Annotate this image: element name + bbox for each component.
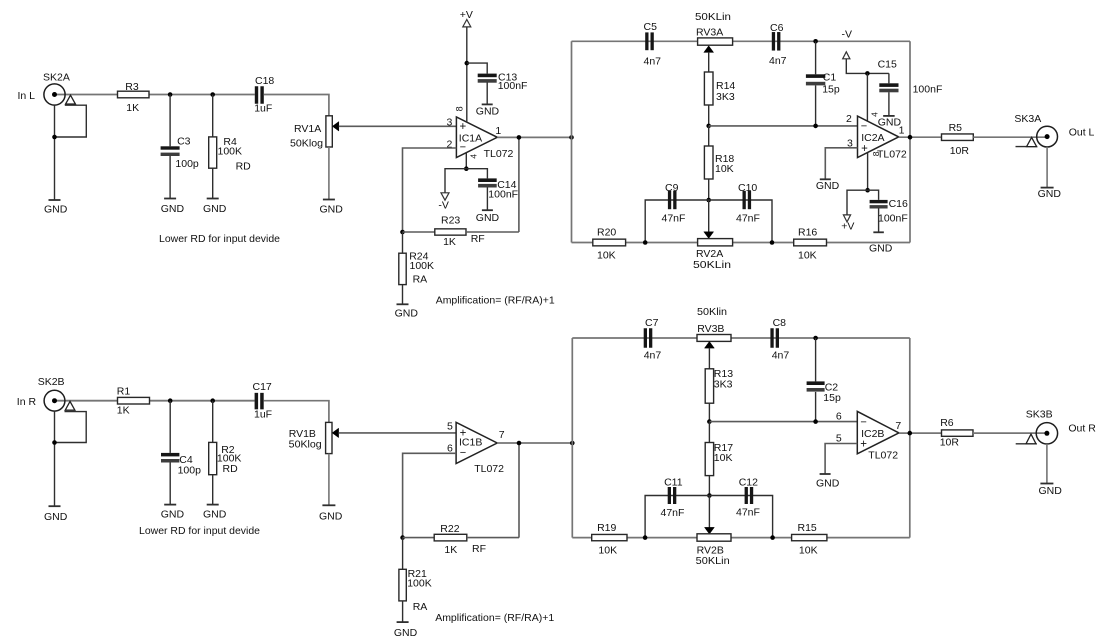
node tone box A input junction xyxy=(569,135,574,140)
wire tone box B top rail xyxy=(572,337,910,339)
wire R6 to SK3B xyxy=(973,432,1046,434)
svg-text:7: 7 xyxy=(895,420,901,432)
svg-text:15p: 15p xyxy=(823,392,841,404)
svg-text:15p: 15p xyxy=(822,84,840,96)
svg-text:3K3: 3K3 xyxy=(714,379,733,391)
svg-text:4n7: 4n7 xyxy=(644,350,662,362)
resistor R24 xyxy=(399,232,434,304)
wire input L main xyxy=(57,94,255,96)
op-amp IC1B xyxy=(447,421,505,475)
wire IC2A output xyxy=(899,136,942,138)
svg-text:GND: GND xyxy=(44,204,68,216)
svg-text:RF: RF xyxy=(471,233,485,245)
svg-text:RV3A: RV3A xyxy=(696,26,723,38)
svg-text:50KLin: 50KLin xyxy=(693,259,731,271)
svg-text:4: 4 xyxy=(468,154,478,159)
svg-text:100K: 100K xyxy=(218,145,243,157)
svg-text:1K: 1K xyxy=(443,236,456,248)
capacitor C9 xyxy=(662,182,686,225)
node tone box A output junction xyxy=(908,135,913,140)
svg-text:R1: R1 xyxy=(117,386,131,398)
capacitor C11 xyxy=(661,477,685,520)
capacitor C7 xyxy=(644,317,662,362)
svg-text:TL072: TL072 xyxy=(868,450,898,462)
op-amp IC2B xyxy=(836,411,902,462)
svg-text:C9: C9 xyxy=(665,182,679,194)
svg-text:TL072: TL072 xyxy=(484,148,514,160)
wire IC1B output xyxy=(497,442,572,444)
svg-text:R23: R23 xyxy=(441,214,460,226)
capacitor C1 xyxy=(806,41,840,126)
ground GND at SK2B xyxy=(44,506,68,523)
svg-text:1: 1 xyxy=(899,124,905,136)
svg-text:C7: C7 xyxy=(645,317,659,329)
resistor R5 xyxy=(942,122,974,157)
ground GND at IC2A pin 3 xyxy=(816,179,840,192)
ground GND at SK3B xyxy=(1039,484,1063,498)
resistor R3 xyxy=(118,81,150,114)
node R18-C9-C10 junction xyxy=(706,198,711,203)
connector SK2B xyxy=(17,376,86,506)
svg-text:R15: R15 xyxy=(798,522,817,534)
node feedback junction B xyxy=(400,535,405,540)
svg-text:GND: GND xyxy=(476,106,500,118)
svg-text:100nF: 100nF xyxy=(488,189,518,201)
svg-text:−: − xyxy=(861,121,867,133)
svg-text:In L: In L xyxy=(18,90,36,102)
svg-text:C16: C16 xyxy=(889,198,908,210)
capacitor C3 xyxy=(161,95,199,199)
svg-text:Lower RD for input devide: Lower RD for input devide xyxy=(159,233,280,245)
svg-text:R19: R19 xyxy=(597,522,616,534)
svg-text:100p: 100p xyxy=(175,158,199,170)
svg-text:IC2B: IC2B xyxy=(861,428,884,440)
capacitor C8 xyxy=(770,317,789,362)
ground GND at IC2B pin 5 xyxy=(816,474,840,490)
svg-text:GND: GND xyxy=(1039,485,1063,497)
svg-text:R6: R6 xyxy=(940,417,954,429)
resistor R1 xyxy=(117,386,150,417)
svg-text:1uF: 1uF xyxy=(254,103,272,115)
label text Lower RD for input devide (bottom) xyxy=(139,525,260,537)
svg-text:Out L: Out L xyxy=(1069,127,1095,139)
capacitor C17 xyxy=(253,381,273,421)
node C10 bottom junction xyxy=(770,240,775,245)
node C12 bottom junction xyxy=(770,535,775,540)
svg-text:47nF: 47nF xyxy=(662,212,686,224)
node feedback junction A xyxy=(400,230,405,235)
svg-text:C11: C11 xyxy=(664,477,683,489)
svg-text:10K: 10K xyxy=(597,250,616,262)
svg-text:8: 8 xyxy=(871,151,881,156)
svg-text:100nF: 100nF xyxy=(498,80,528,92)
svg-text:GND: GND xyxy=(319,511,343,523)
svg-text:RA: RA xyxy=(413,601,428,613)
svg-text:RD: RD xyxy=(236,161,252,173)
node C11 bottom junction xyxy=(643,535,648,540)
svg-text:100K: 100K xyxy=(407,577,432,589)
svg-text:+V: +V xyxy=(460,9,473,21)
svg-text:C17: C17 xyxy=(253,381,272,393)
svg-text:RV1A: RV1A xyxy=(294,123,321,135)
wire tone box A bottom rail xyxy=(572,242,911,244)
svg-text:GND: GND xyxy=(816,180,840,192)
ground GND at R2 xyxy=(203,505,227,521)
potentiometer RV3B xyxy=(697,306,731,369)
wire R23 to IC1A output xyxy=(518,137,520,232)
node C8 - C2 junction xyxy=(813,336,818,341)
svg-text:7: 7 xyxy=(499,429,505,441)
wire tone box A left edge xyxy=(571,41,573,242)
resistor R13 xyxy=(705,368,733,422)
ground GND at SK2A xyxy=(44,200,68,216)
svg-text:In R: In R xyxy=(17,396,37,408)
svg-text:47nF: 47nF xyxy=(736,507,760,519)
svg-text:C15: C15 xyxy=(878,59,897,71)
svg-text:GND: GND xyxy=(869,243,893,255)
connector SK3B xyxy=(1016,409,1097,484)
svg-text:4n7: 4n7 xyxy=(772,350,790,362)
op-amp IC2A xyxy=(846,112,907,161)
svg-text:SK2B: SK2B xyxy=(38,376,65,388)
ground GND at R4 xyxy=(203,199,227,216)
capacitor C15 xyxy=(878,59,943,116)
svg-text:GND: GND xyxy=(476,212,500,224)
svg-text:C12: C12 xyxy=(739,477,758,489)
svg-text:100p: 100p xyxy=(178,465,202,477)
svg-text:1K: 1K xyxy=(117,404,130,416)
label text Amplification formula (bottom) xyxy=(435,612,554,624)
svg-text:GND: GND xyxy=(320,204,344,216)
svg-text:TL072: TL072 xyxy=(474,463,504,475)
node R1-C4 junction xyxy=(168,398,173,403)
wire R22 to IC1B output xyxy=(518,443,520,538)
power +V at IC1A pin 8 xyxy=(460,9,473,122)
capacitor C4 xyxy=(161,401,201,505)
svg-text:10R: 10R xyxy=(940,437,960,449)
svg-text:TL072: TL072 xyxy=(877,149,907,161)
svg-text:5: 5 xyxy=(447,421,453,433)
node R3-C3 junction xyxy=(168,92,173,97)
svg-text:−: − xyxy=(460,447,466,459)
node C1 bottom junction xyxy=(813,124,818,129)
wire IC2B output xyxy=(899,432,942,434)
potentiometer RV1B xyxy=(289,422,339,505)
svg-text:5: 5 xyxy=(836,432,842,444)
connector SK3A xyxy=(1014,113,1094,187)
wire R5 to SK3A xyxy=(973,136,1046,138)
resistor R6 xyxy=(940,417,973,449)
node IC1B output junction xyxy=(517,441,522,446)
svg-text:C8: C8 xyxy=(773,317,787,329)
ground GND at RV1B xyxy=(319,505,343,522)
svg-text:Amplification= (RF/RA)+1: Amplification= (RF/RA)+1 xyxy=(436,294,555,306)
node pin8 junction A xyxy=(865,188,870,193)
node C9 bottom junction xyxy=(643,240,648,245)
svg-text:1uF: 1uF xyxy=(254,409,272,421)
capacitor C10 xyxy=(736,182,760,225)
power +V at IC2A pin 8 xyxy=(841,190,867,232)
node R13-R17 junction xyxy=(707,419,712,424)
svg-text:3: 3 xyxy=(446,117,452,129)
wire C11 C12 branch B xyxy=(645,496,773,538)
svg-text:RV3B: RV3B xyxy=(697,323,724,335)
svg-text:RD: RD xyxy=(223,463,239,475)
resistor R19 xyxy=(592,522,627,557)
capacitor C13 xyxy=(467,63,528,104)
svg-text:1: 1 xyxy=(495,125,501,137)
resistor R2 xyxy=(209,401,242,505)
wire to IC2B pin 6 xyxy=(709,421,857,423)
node +V decoupling junction xyxy=(465,61,470,66)
svg-text:R16: R16 xyxy=(798,227,817,239)
node C2 bottom junction xyxy=(813,419,818,424)
svg-text:C1: C1 xyxy=(823,72,837,84)
svg-text:IC2A: IC2A xyxy=(861,132,884,144)
svg-text:C6: C6 xyxy=(770,22,784,34)
ground GND at C14 xyxy=(476,210,500,224)
svg-text:2: 2 xyxy=(846,113,852,125)
wire IC2B pin 5 to ground xyxy=(825,444,857,474)
capacitor C5 xyxy=(644,21,662,68)
resistor R21 xyxy=(399,538,432,622)
capacitor C14 xyxy=(466,169,518,210)
svg-text:C10: C10 xyxy=(738,182,757,194)
potentiometer RV2B xyxy=(696,496,731,568)
svg-text:Lower RD for input devide: Lower RD for input devide xyxy=(139,525,260,537)
svg-text:GND: GND xyxy=(44,511,68,523)
node tone box B output junction xyxy=(908,431,913,436)
svg-text:50Klin: 50Klin xyxy=(697,306,727,318)
wire to IC2A pin 2 xyxy=(709,125,858,127)
svg-text:RA: RA xyxy=(413,274,428,286)
svg-text:100K: 100K xyxy=(410,260,435,272)
node -V pin4 junction xyxy=(865,71,870,76)
svg-text:+: + xyxy=(460,121,467,133)
ground GND at C16 xyxy=(873,231,884,233)
svg-text:50KLin: 50KLin xyxy=(695,11,731,23)
node IC1A output junction xyxy=(517,135,522,140)
capacitor C18 xyxy=(254,75,274,115)
wire C17 to RV1B xyxy=(264,401,329,423)
svg-text:47nF: 47nF xyxy=(661,507,685,519)
svg-text:R22: R22 xyxy=(440,523,459,535)
potentiometer RV1A xyxy=(290,116,339,200)
svg-text:3K3: 3K3 xyxy=(716,91,735,103)
resistor R16 xyxy=(794,227,827,262)
capacitor C16 xyxy=(868,190,908,232)
svg-text:1K: 1K xyxy=(126,102,139,114)
svg-text:6: 6 xyxy=(836,411,842,423)
capacitor C12 xyxy=(736,477,760,519)
wire RV1A wiper to IC1A pin 3 xyxy=(339,125,457,127)
svg-text:-V: -V xyxy=(438,200,449,212)
svg-text:50KLin: 50KLin xyxy=(696,555,730,567)
resistor R15 xyxy=(792,522,827,557)
svg-text:50Klog: 50Klog xyxy=(289,438,322,450)
resistor R17 xyxy=(705,422,733,496)
node R4 junction xyxy=(210,92,215,97)
node R14-R18 junction xyxy=(706,124,711,129)
svg-text:GND: GND xyxy=(203,509,227,521)
svg-text:100nF: 100nF xyxy=(913,84,943,96)
resistor R14 xyxy=(704,72,735,126)
svg-text:4n7: 4n7 xyxy=(769,55,787,67)
svg-text:GND: GND xyxy=(816,478,840,490)
ground GND at R24 xyxy=(395,304,419,319)
svg-text:C3: C3 xyxy=(177,136,191,148)
node R2 junction xyxy=(210,398,215,403)
ground GND label at C16 bottom rail xyxy=(869,243,893,255)
node SK2A shield junction xyxy=(52,135,57,140)
svg-text:IC1A: IC1A xyxy=(459,133,482,145)
svg-text:GND: GND xyxy=(394,627,418,639)
svg-text:10K: 10K xyxy=(714,452,733,464)
resistor R4 xyxy=(209,95,251,199)
wire tone box A right edge xyxy=(909,41,911,242)
svg-text:SK3B: SK3B xyxy=(1026,409,1053,421)
node SK2B shield junction xyxy=(52,440,57,445)
svg-text:GND: GND xyxy=(161,509,185,521)
svg-text:R20: R20 xyxy=(597,227,616,239)
wire IC1A pin 2 feedback xyxy=(403,148,457,232)
resistor R20 xyxy=(593,227,626,262)
power -V at tone box A xyxy=(842,29,889,74)
node tone box B input junction xyxy=(570,441,575,446)
svg-text:R5: R5 xyxy=(949,122,963,134)
svg-text:+: + xyxy=(860,438,867,450)
wire IC1A output xyxy=(497,136,571,138)
svg-text:10K: 10K xyxy=(715,163,734,175)
power -V at IC1A pin 4 xyxy=(438,169,466,212)
svg-text:RF: RF xyxy=(472,543,486,555)
svg-text:−: − xyxy=(860,416,866,428)
capacitor C2 xyxy=(807,338,841,422)
label text Amplification formula (top) xyxy=(436,294,555,306)
capacitor C6 xyxy=(769,22,787,67)
svg-text:GND: GND xyxy=(203,203,227,215)
ground GND at SK3A xyxy=(1038,188,1062,200)
svg-text:C18: C18 xyxy=(255,75,274,87)
ground GND at R21 xyxy=(394,622,418,639)
svg-text:C5: C5 xyxy=(644,21,658,33)
svg-text:10K: 10K xyxy=(799,545,818,557)
svg-text:10R: 10R xyxy=(950,145,970,157)
wire C9 C10 branch A xyxy=(645,200,772,243)
wire C18 to RV1A xyxy=(264,95,329,116)
svg-text:10K: 10K xyxy=(798,250,817,262)
svg-text:100nF: 100nF xyxy=(878,213,908,225)
svg-text:Out R: Out R xyxy=(1068,423,1096,435)
wire IC1B pin 6 feedback xyxy=(403,453,457,537)
potentiometer RV2A xyxy=(693,200,733,271)
svg-text:IC1B: IC1B xyxy=(459,437,482,449)
wire tone box B bottom rail xyxy=(572,537,910,539)
svg-text:-V: -V xyxy=(842,29,853,41)
svg-text:GND: GND xyxy=(161,203,185,215)
ground GND at RV1A xyxy=(320,200,344,216)
potentiometer RV3A xyxy=(695,11,733,72)
power pin 8 wire of IC2A xyxy=(867,153,869,191)
svg-text:8: 8 xyxy=(455,106,465,111)
wire tone box B right edge xyxy=(909,338,911,538)
svg-text:R14: R14 xyxy=(716,80,735,92)
svg-text:4n7: 4n7 xyxy=(644,56,662,68)
wire RV1B wiper to IC1B pin 5 xyxy=(339,432,457,434)
svg-text:SK2A: SK2A xyxy=(43,72,70,84)
node R17-C11-C12 junction xyxy=(707,493,712,498)
ground GND at C15 xyxy=(878,116,902,129)
resistor R22 xyxy=(403,523,519,556)
label text Lower RD for input devide (top) xyxy=(159,233,280,245)
svg-text:4: 4 xyxy=(870,112,880,117)
resistor R18 xyxy=(704,126,734,200)
node C6 - C1 junction xyxy=(813,39,818,44)
svg-text:1K: 1K xyxy=(444,544,457,556)
connector SK2A xyxy=(18,72,87,201)
wire tone box A top rail xyxy=(572,40,911,42)
resistor R23 xyxy=(403,214,519,248)
svg-text:SK3A: SK3A xyxy=(1014,113,1041,125)
wire IC2A pin 3 to ground xyxy=(825,148,857,179)
ground GND at C4 xyxy=(161,505,185,521)
op-amp IC1A xyxy=(446,106,513,160)
svg-text:47nF: 47nF xyxy=(736,212,760,224)
ground GND at C3 xyxy=(161,199,185,216)
ground GND at C13 xyxy=(476,104,500,117)
svg-text:R3: R3 xyxy=(125,81,139,93)
node pin4 junction xyxy=(464,166,469,171)
svg-text:GND: GND xyxy=(1038,188,1062,200)
wire tone box B left edge xyxy=(571,338,573,538)
wire input R main xyxy=(57,400,255,402)
svg-text:+V: +V xyxy=(841,221,854,233)
svg-text:10K: 10K xyxy=(598,545,617,557)
svg-text:Amplification= (RF/RA)+1: Amplification= (RF/RA)+1 xyxy=(435,612,554,624)
svg-text:50Klog: 50Klog xyxy=(290,138,323,150)
power pin 4 wire of IC1A xyxy=(465,153,467,169)
power pin 4 wire of IC2A xyxy=(866,73,868,120)
svg-text:GND: GND xyxy=(395,308,419,320)
